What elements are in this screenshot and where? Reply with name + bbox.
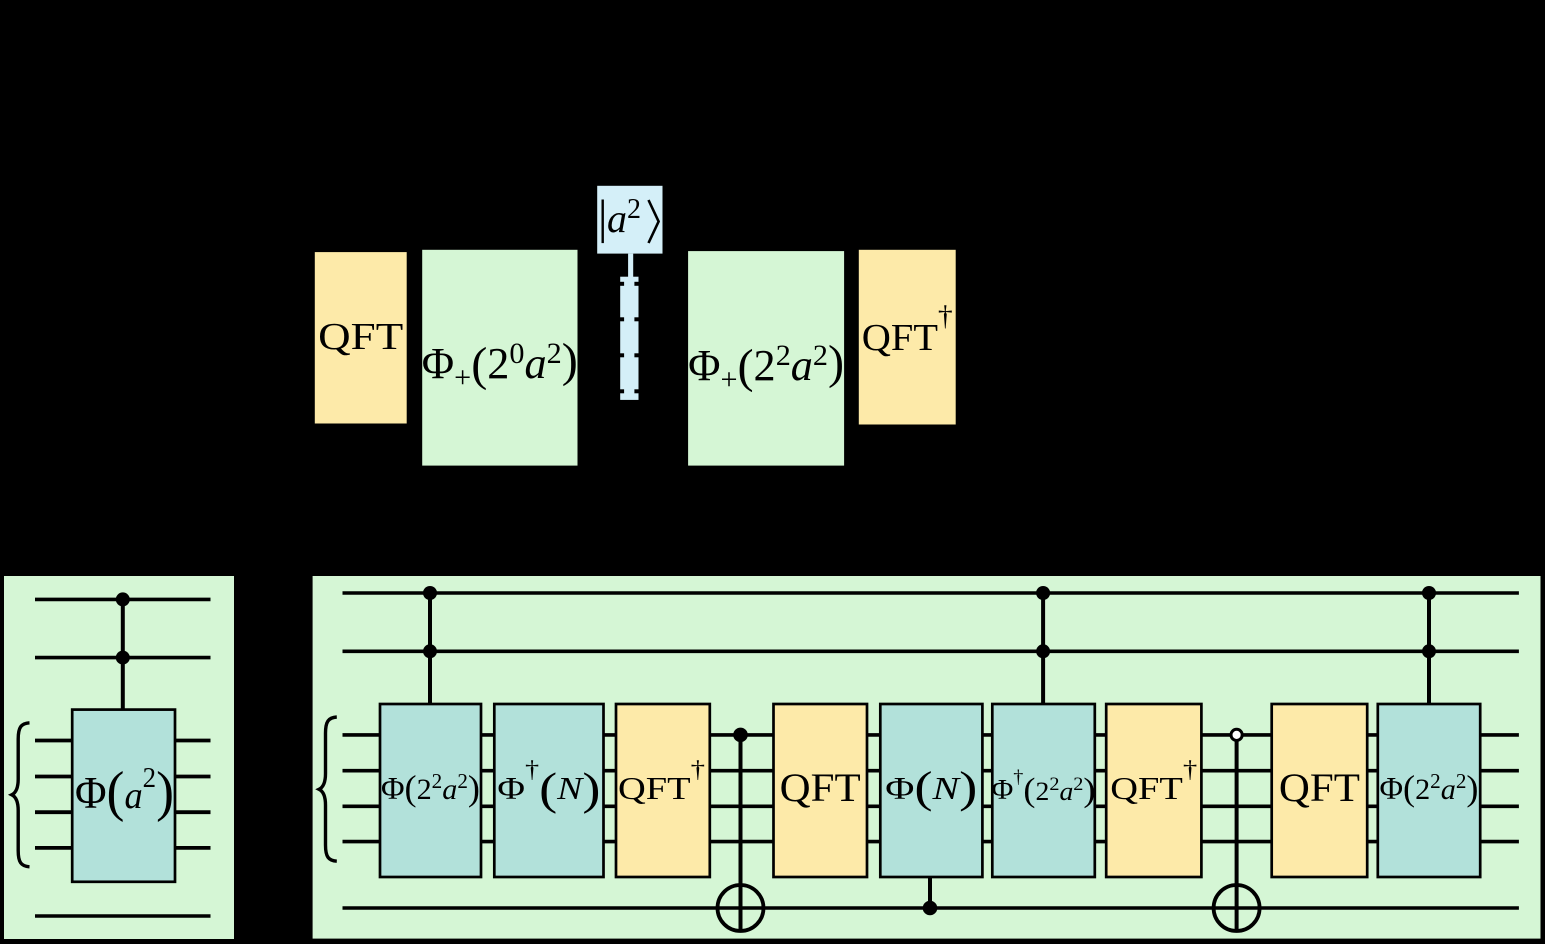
control line from Phi(N) to bottom wire <box>928 877 932 908</box>
wire stem from ket box <box>628 254 633 278</box>
control dot g1 w2 <box>423 644 437 658</box>
gate QFT-dagger #2 <box>1106 704 1201 877</box>
gate Phi+(2^0 a^2) (top row) <box>422 250 578 466</box>
cnot2 control line <box>1235 735 1239 931</box>
gate Phi-dagger(N) <box>494 704 603 877</box>
wire w2 <box>343 649 1519 653</box>
cnot1 control line <box>739 735 743 931</box>
control dot g7 w1 <box>1036 586 1050 600</box>
input ket |a^2> box <box>597 186 662 254</box>
control line gate1 <box>428 593 432 704</box>
ket right angle bracket <box>649 200 659 243</box>
control dot g11 w1 <box>1422 586 1436 600</box>
control dot Phi(N) bottom <box>923 901 938 916</box>
bus wire b2 <box>35 775 211 779</box>
panel background <box>313 576 1541 939</box>
bottom wire <box>35 914 211 918</box>
gate QFT #1 <box>774 704 868 877</box>
control dot g1 w1 <box>423 586 437 600</box>
cnot2 open control <box>1231 729 1242 740</box>
control line <box>121 599 125 709</box>
svg-text:Φ(N): Φ(N) <box>885 763 977 812</box>
bus wire r3 <box>343 804 1519 808</box>
bus wire r1 <box>343 733 1519 737</box>
svg-text:QFT: QFT <box>780 765 861 810</box>
cnot1 target <box>718 885 764 931</box>
control dot g7 w2 <box>1036 644 1050 658</box>
cnot2 target <box>1214 885 1260 931</box>
svg-text:QFT: QFT <box>318 316 403 358</box>
cnot1 control dot <box>733 728 748 743</box>
wire notch 4 <box>619 389 624 393</box>
brace left <box>319 717 337 861</box>
multi-qubit bus bar (blue) <box>619 277 639 400</box>
panel background <box>4 576 234 939</box>
control dot c2 <box>116 651 130 665</box>
wire w1 <box>343 591 1519 595</box>
gate Phi(2^2 a^2) #1 <box>380 704 481 877</box>
gate Phi(a^2) <box>72 710 175 882</box>
bus wire b4 <box>35 846 211 850</box>
control line gate11 <box>1427 593 1431 704</box>
gate Phi+(2^2 a^2) (top row) <box>688 251 844 466</box>
gate QFT (top row) <box>315 252 407 423</box>
gate QFT-dagger (top row) <box>859 250 956 425</box>
bus wire b1 <box>35 739 211 743</box>
control dot c1 <box>116 592 130 606</box>
control line gate7 <box>1041 593 1045 704</box>
control dot g11 w2 <box>1422 644 1436 658</box>
bus wire r4 <box>343 840 1519 844</box>
gate Phi-dagger(2^2 a^2) <box>992 704 1095 877</box>
bus wire r2 <box>343 769 1519 773</box>
ket vertical bar <box>602 200 604 244</box>
bus wire b3 <box>35 810 211 814</box>
gate QFT #2 <box>1272 704 1368 877</box>
brace left <box>12 723 30 867</box>
bottom wire <box>343 906 1519 910</box>
gate QFT-dagger #1 <box>616 704 710 877</box>
wire notch 3 <box>619 353 624 357</box>
gate Phi(2^2 a^2) #2 <box>1378 704 1480 877</box>
wire c1 <box>35 598 211 602</box>
svg-text:QFT: QFT <box>1279 765 1360 810</box>
wire c2 <box>35 656 211 660</box>
wire notch 1 <box>619 282 624 286</box>
gate Phi(N) <box>880 704 982 877</box>
wire notch 2 <box>619 317 624 321</box>
